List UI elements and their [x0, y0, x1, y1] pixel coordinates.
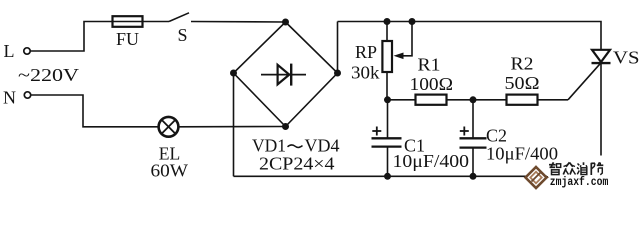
junction dot RP bottom / R1 / C1	[384, 96, 391, 103]
wire fuse to switch	[143, 21, 170, 23]
wire bottom rail	[234, 175, 602, 177]
svg-text:VD4: VD4	[305, 136, 340, 156]
wire gate diagonal to thyristor	[568, 63, 601, 100]
svg-text:100Ω: 100Ω	[410, 74, 454, 94]
svg-text:FU: FU	[116, 29, 139, 49]
wire junction to R1	[388, 99, 416, 101]
svg-text:VD1: VD1	[252, 136, 286, 156]
junction dot bridge bottom	[282, 123, 289, 130]
junction dot bridge right	[334, 70, 341, 77]
svg-text:~220V: ~220V	[18, 65, 79, 85]
svg-text:10μF/400: 10μF/400	[393, 151, 470, 171]
switch S	[169, 13, 189, 22]
wire N terminal to lamp	[31, 95, 159, 127]
thyristor VS	[592, 50, 611, 177]
junction dot RP top	[384, 18, 391, 25]
wire L terminal to fuse	[30, 22, 112, 52]
svg-text:zmjaxf.com: zmjaxf.com	[550, 176, 609, 189]
resistor R2	[507, 95, 538, 105]
junction dot bridge top	[282, 19, 289, 26]
svg-text:R1: R1	[418, 55, 441, 75]
watermark logo	[526, 167, 550, 188]
svg-text:L: L	[4, 41, 15, 61]
diode symbol inside bridge	[261, 64, 306, 86]
wire top rail to thyristor	[338, 22, 602, 51]
svg-text:S: S	[178, 25, 188, 45]
wire bridge right corner up to top rail	[337, 22, 339, 74]
capacitor C2	[460, 100, 487, 177]
lamp EL	[159, 117, 179, 137]
wire bridge left corner down to bottom rail	[233, 73, 235, 176]
junction dot bridge left	[230, 70, 237, 77]
potentiometer RP	[382, 22, 412, 101]
watermark white halo	[547, 156, 610, 189]
wire lamp to bridge bottom corner	[179, 126, 286, 128]
fuse FU	[113, 16, 143, 27]
junction dot C1 bottom	[384, 173, 391, 180]
svg-text:RP: RP	[355, 42, 377, 62]
svg-text:30k: 30k	[351, 63, 380, 83]
svg-text:50Ω: 50Ω	[505, 73, 540, 93]
resistor R1	[416, 95, 447, 105]
wire R2 to gate bend	[538, 99, 569, 101]
junction dot C2 bottom	[470, 173, 477, 180]
junction dot RP wiper top	[409, 18, 416, 25]
svg-text:R2: R2	[511, 54, 534, 74]
watermark text zhimiao xiaofang (hand-drawn CJK strokes)	[549, 162, 603, 175]
junction dot R1 / R2 / C2	[470, 96, 477, 103]
wire switch to bridge top corner	[191, 21, 286, 24]
capacitor C1	[372, 100, 402, 177]
bridge rectifier VD1-VD4 diamond	[234, 22, 338, 127]
terminal N	[24, 92, 30, 98]
svg-text:2CP24×4: 2CP24×4	[259, 154, 335, 174]
svg-text:VS: VS	[613, 48, 640, 68]
terminal L	[24, 48, 30, 54]
wire R1 to R2	[447, 99, 507, 101]
svg-text:C2: C2	[486, 126, 507, 146]
svg-text:N: N	[3, 88, 16, 108]
svg-text:60W: 60W	[151, 161, 189, 181]
